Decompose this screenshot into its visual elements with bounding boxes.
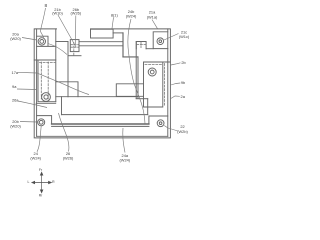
leader 20b — [20, 121, 38, 124]
screw circle left cutout — [42, 93, 51, 102]
top center rect — [91, 29, 114, 38]
central right double vertical — [136, 42, 138, 99]
leader 22 — [164, 126, 178, 132]
svg-text:17a: 17a — [12, 70, 19, 75]
left cutout arm — [56, 82, 78, 97]
leader 26b — [74, 16, 76, 45]
plate outer frame — [34, 29, 170, 138]
leader 21c — [164, 34, 179, 41]
leader bottom 1 — [37, 126, 41, 152]
leader 9b — [171, 83, 181, 85]
spring anchor box right — [136, 42, 146, 49]
right step horizontal — [123, 56, 138, 58]
svg-text:(W26): (W26) — [63, 156, 74, 161]
leader 21b — [58, 15, 76, 47]
center mass right edge — [147, 99, 149, 115]
leader 20a — [22, 38, 67, 55]
svg-text:(W24): (W24) — [126, 14, 137, 19]
leader bottom 3 — [123, 128, 125, 153]
svg-text:(W1b): (W1b) — [52, 11, 63, 16]
leader 2a — [171, 96, 180, 99]
right cutout rect — [144, 62, 171, 107]
svg-text:2b: 2b — [181, 60, 185, 65]
svg-text:(W20): (W20) — [10, 36, 21, 41]
central left vertical — [67, 42, 69, 97]
long mid horizontal — [56, 96, 138, 98]
svg-text:(W1c): (W1c) — [179, 34, 190, 39]
pad bottom-left — [37, 116, 52, 124]
pad top-left — [37, 36, 56, 46]
svg-text:2a: 2a — [181, 94, 186, 99]
plate inner wall left — [36, 29, 38, 136]
leader lines — [17, 8, 181, 153]
left step horizontal — [68, 55, 81, 57]
leader 21a — [152, 20, 158, 29]
svg-text:8(1): 8(1) — [111, 13, 119, 18]
svg-text:(W24): (W24) — [30, 155, 41, 160]
svg-text:(W26): (W26) — [71, 11, 82, 16]
leader bottom 2 — [59, 113, 69, 152]
left cutout second bottom — [36, 102, 56, 104]
circle bottom-left — [38, 119, 45, 126]
svg-text:Fr: Fr — [39, 168, 43, 172]
notch right ledge — [113, 32, 123, 34]
notch right wall — [122, 33, 124, 57]
compass letters — [28, 168, 56, 198]
svg-text:(W20): (W20) — [10, 123, 21, 128]
center step right — [136, 98, 148, 100]
spring anchor box left — [70, 40, 79, 52]
svg-text:26a: 26a — [12, 98, 19, 103]
ledge lines — [52, 123, 149, 125]
center mass bottom — [62, 114, 148, 116]
notch bottom step — [56, 41, 68, 43]
compass axes — [32, 172, 52, 193]
hidden dashed lines left cutout — [40, 42, 165, 106]
pad top-right — [153, 32, 168, 49]
pad bottom extension right — [146, 48, 153, 50]
top notch left wall — [55, 29, 57, 102]
leader 26a — [18, 101, 47, 108]
circle top-right — [157, 38, 164, 45]
center mass left edge — [61, 97, 63, 115]
pad bottom-right — [149, 116, 168, 124]
plate inner wall bottom — [37, 135, 168, 137]
bridge lines — [79, 42, 123, 46]
svg-text:9a: 9a — [12, 84, 17, 89]
right cutout arm — [116, 84, 143, 97]
leader 8 — [41, 8, 46, 38]
svg-text:(W1a): (W1a) — [147, 14, 158, 19]
svg-text:9b: 9b — [181, 80, 185, 85]
leader 17a — [18, 72, 89, 94]
svg-text:(W2b): (W2b) — [177, 129, 188, 134]
circle bottom-right — [157, 120, 164, 127]
svg-text:Rr: Rr — [39, 194, 43, 198]
leader 8(1) — [112, 18, 114, 29]
leader 2b — [171, 63, 181, 65]
leader 24b — [128, 19, 145, 124]
circle top-left — [38, 38, 45, 45]
plate inner wall right — [167, 29, 169, 136]
hidden dash top — [71, 42, 146, 55]
svg-text:(W24): (W24) — [120, 157, 131, 162]
screw circle right cutout — [148, 68, 156, 76]
leader 9a — [17, 88, 37, 91]
svg-text:R: R — [52, 180, 55, 184]
svg-text:8: 8 — [44, 3, 47, 9]
left cutout rect — [34, 60, 55, 102]
svg-text:L: L — [28, 180, 30, 184]
hidden dashed lines right cutout — [164, 64, 166, 106]
